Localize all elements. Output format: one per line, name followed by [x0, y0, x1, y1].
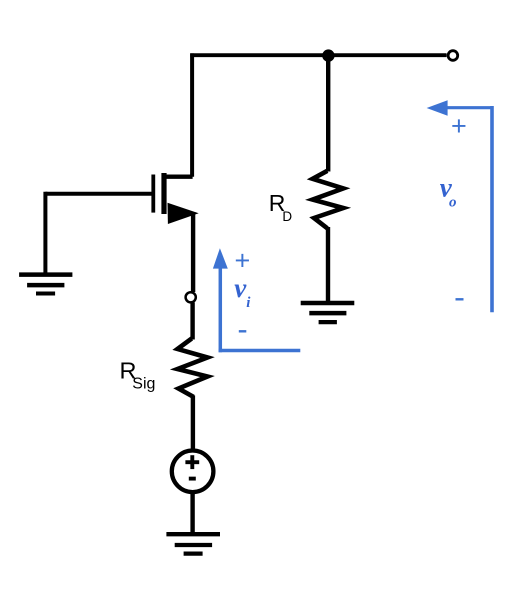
node: junction dot at top of RD [322, 49, 334, 61]
transistor Q1 (enhancement NMOS, simplified symbol) [153, 173, 198, 224]
wire: gate lead [45, 192, 151, 196]
wire: vi vertical line [219, 266, 223, 352]
wire: source wire upper segment [191, 212, 195, 292]
plus [185, 460, 199, 464]
source V1 (signal source) [172, 451, 214, 493]
svg-text:+: + [235, 246, 251, 276]
wire: vi horizontal line [219, 349, 301, 352]
wire: source to bottom ground [190, 491, 194, 534]
annotation vi: blue bracket with up arrow [213, 246, 300, 353]
svg-text:v: v [234, 273, 247, 303]
svg-text:D: D [282, 209, 292, 224]
wire: RD to ground [326, 227, 330, 303]
minus [189, 477, 196, 481]
resistor RD [313, 171, 344, 229]
gate bar [151, 175, 155, 213]
terminal: output open circle [448, 51, 458, 61]
wire: drain vertical wire [190, 53, 194, 176]
ground (bottom) [166, 534, 220, 553]
vo minus [456, 298, 464, 300]
wire: vo horizontal line [445, 106, 493, 109]
vo arrowhead [427, 100, 448, 116]
svg-text:o: o [449, 195, 457, 211]
ground (RD) [301, 303, 355, 322]
wire: source wire lower segment [190, 303, 194, 340]
vi arrowhead [213, 248, 228, 268]
wire: top rail from drain to output terminal [190, 53, 446, 57]
svg-text:+: + [451, 111, 467, 141]
drain lead [163, 174, 193, 178]
channel bar [161, 173, 166, 214]
wire: left vertical to ground [43, 192, 47, 273]
svg-text:Sig: Sig [132, 376, 155, 393]
wire: RSig to source [191, 396, 195, 451]
wire: RD top wire [326, 55, 330, 171]
vi minus [239, 330, 247, 332]
resistor RSig [178, 339, 208, 397]
node: input terminal open circle [186, 292, 196, 302]
svg-text:i: i [246, 295, 251, 311]
ground (gate) [19, 275, 72, 294]
wire: vo vertical line [490, 106, 494, 312]
annotation vo: blue bracket with left arrow [427, 100, 494, 312]
source arrow [168, 203, 199, 224]
